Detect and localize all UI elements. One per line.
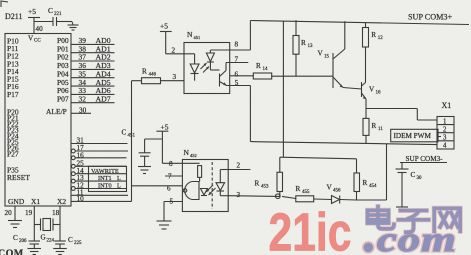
- svg-text:V: V: [318, 50, 324, 58]
- svg-text:451: 451: [128, 134, 136, 139]
- svg-text:16: 16: [376, 91, 382, 96]
- svg-text:18: 18: [52, 209, 60, 217]
- svg-text:2: 2: [172, 47, 176, 55]
- svg-text:3: 3: [173, 73, 177, 81]
- svg-text:V: V: [327, 184, 333, 192]
- svg-text:R: R: [363, 179, 368, 187]
- svg-text:455: 455: [302, 190, 310, 195]
- svg-text:X1: X1: [31, 197, 40, 206]
- svg-text:224: 224: [47, 239, 55, 244]
- svg-text:446: 446: [149, 73, 157, 78]
- svg-text:R: R: [301, 39, 306, 47]
- svg-text:C: C: [48, 6, 53, 15]
- svg-text:N: N: [187, 30, 193, 39]
- svg-text:8: 8: [169, 160, 173, 168]
- svg-text:N: N: [184, 148, 190, 157]
- svg-text:L: L: [117, 175, 121, 182]
- svg-text:R: R: [142, 68, 147, 76]
- svg-text:C: C: [411, 171, 416, 179]
- svg-text:15: 15: [324, 55, 330, 60]
- svg-text:452: 452: [190, 153, 197, 158]
- svg-text:COM: COM: [0, 249, 24, 255]
- svg-text:R: R: [371, 31, 376, 39]
- svg-text:X1: X1: [442, 101, 452, 110]
- svg-text:30: 30: [417, 176, 423, 181]
- svg-text:ALE/P: ALE/P: [46, 107, 67, 116]
- svg-text:P27: P27: [7, 150, 19, 159]
- svg-text:IDEM PWM: IDEM PWM: [394, 132, 432, 140]
- svg-text:+5: +5: [28, 7, 36, 16]
- svg-text:19: 19: [25, 209, 33, 217]
- svg-text:C: C: [13, 234, 18, 242]
- svg-text:R: R: [372, 122, 377, 130]
- svg-text:206: 206: [19, 239, 27, 244]
- svg-text:12: 12: [378, 36, 384, 41]
- svg-text:R: R: [296, 185, 301, 193]
- svg-text:451: 451: [194, 35, 201, 40]
- svg-text:R: R: [255, 180, 260, 188]
- svg-text:21ic: 21ic: [269, 203, 352, 255]
- svg-text:14: 14: [263, 67, 269, 72]
- svg-text:456: 456: [333, 189, 341, 194]
- svg-text:1: 1: [443, 118, 446, 125]
- svg-text:SUP COM3+: SUP COM3+: [408, 13, 453, 22]
- svg-text:454: 454: [369, 184, 377, 189]
- svg-text:INT1: INT1: [98, 175, 112, 182]
- svg-text:13: 13: [308, 44, 314, 49]
- svg-text:225: 225: [74, 241, 82, 246]
- svg-text:2: 2: [443, 127, 447, 134]
- svg-text:D211: D211: [5, 12, 22, 21]
- svg-text:453: 453: [261, 185, 269, 190]
- svg-text:SUP COM3-: SUP COM3-: [406, 155, 444, 163]
- svg-text:G: G: [41, 234, 46, 242]
- svg-text:V: V: [369, 86, 375, 94]
- svg-text:RESET: RESET: [7, 173, 30, 182]
- svg-text:GND: GND: [8, 197, 25, 206]
- svg-text:C: C: [68, 236, 73, 244]
- svg-text:+5: +5: [161, 123, 169, 132]
- svg-text:+5: +5: [160, 22, 168, 31]
- svg-text:11: 11: [378, 127, 383, 132]
- svg-text:L: L: [117, 183, 121, 190]
- svg-text:C: C: [122, 129, 127, 137]
- svg-text:4: 4: [443, 143, 447, 150]
- svg-text:P07: P07: [57, 95, 69, 104]
- svg-text:6: 6: [235, 71, 239, 79]
- svg-text:8: 8: [235, 41, 239, 49]
- svg-text:221: 221: [54, 12, 62, 17]
- svg-text:40: 40: [36, 25, 44, 33]
- svg-text:20: 20: [5, 209, 13, 217]
- svg-text:INT0: INT0: [98, 183, 112, 190]
- svg-text:VAWRITE: VAWRITE: [91, 168, 119, 175]
- svg-text:P17: P17: [7, 90, 19, 99]
- svg-text:X2: X2: [57, 197, 66, 206]
- svg-text:R: R: [256, 62, 261, 70]
- svg-text:3: 3: [237, 191, 241, 199]
- svg-text:3: 3: [443, 135, 447, 142]
- svg-text:2: 2: [237, 162, 241, 170]
- svg-text:CC: CC: [34, 39, 41, 44]
